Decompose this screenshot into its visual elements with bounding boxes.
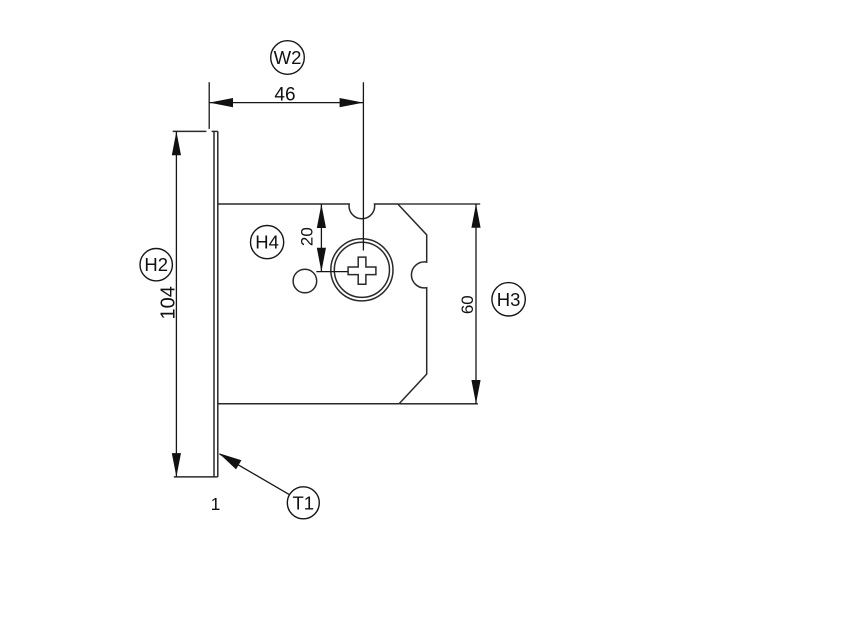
svg-text:T1: T1: [293, 492, 315, 513]
20-dim bottom extension line to screw center: [316, 271, 348, 273]
H3 dimension line (60): [475, 204, 477, 404]
H2 bottom arrowhead: [172, 453, 181, 477]
T1 leader line: [220, 454, 290, 495]
plate bottom edge / H2 bottom extension line: [174, 476, 218, 478]
mounting plate (flange, side view): [214, 131, 218, 477]
W2 left arrowhead: [209, 98, 233, 107]
svg-text:1: 1: [211, 494, 221, 514]
small hole: [293, 269, 317, 293]
H4/20 dimension line: [320, 204, 322, 271]
W2 right extension line / screw centerline: [362, 82, 364, 250]
T1 leader arrowhead: [219, 453, 241, 469]
W2 left extension line: [208, 82, 210, 129]
screw head outer circle: [331, 239, 393, 301]
svg-text:104: 104: [158, 286, 180, 319]
svg-text:H2: H2: [144, 254, 168, 275]
phillips cross recess: [348, 257, 376, 284]
20-dim bottom arrowhead: [317, 248, 326, 272]
H3 bottom arrowhead: [471, 380, 480, 404]
H2 top arrowhead: [172, 131, 181, 155]
H3 top arrowhead: [471, 204, 480, 228]
balloon W2 circle: [271, 41, 305, 75]
body outline (housing with chamfered right corners, top notch, side notch): [218, 204, 427, 404]
svg-text:60: 60: [458, 295, 477, 314]
20-dim top arrowhead: [317, 204, 326, 228]
balloon H3 circle: [492, 283, 525, 316]
H2 dimension line (104): [175, 131, 177, 477]
H3 top extension line: [399, 203, 481, 205]
svg-text:46: 46: [274, 84, 295, 105]
H3 bottom extension line: [400, 403, 478, 405]
balloon T1 circle: [287, 487, 319, 519]
svg-text:20: 20: [297, 227, 316, 246]
screw head inner circle: [334, 242, 389, 297]
balloon H4 circle: [251, 226, 284, 259]
svg-text:W2: W2: [274, 47, 302, 68]
plate top edge / H2 top extension line: [173, 130, 207, 132]
balloon H2 circle: [140, 249, 172, 281]
W2 dimension line (46): [209, 102, 363, 104]
svg-text:H4: H4: [255, 232, 279, 253]
W2 right arrowhead: [340, 98, 364, 107]
svg-text:H3: H3: [497, 289, 521, 310]
